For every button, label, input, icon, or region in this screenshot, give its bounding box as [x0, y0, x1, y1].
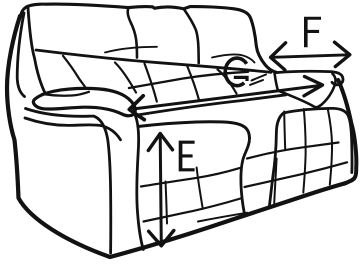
lumbar divider arc 2 [115, 63, 136, 93]
grid g2 right face [245, 162, 348, 187]
label E [179, 141, 195, 172]
grid g1 right face [247, 143, 339, 159]
arrow G left head [129, 96, 144, 120]
arm front top + right edge [26, 109, 111, 254]
right pocket fold 1 [252, 75, 267, 81]
seat band top edge [138, 122, 250, 138]
bottom hem line left face [198, 213, 248, 222]
arrow E shaft [160, 135, 161, 246]
seat right corner edge [241, 138, 250, 214]
grid h1 left face [141, 168, 241, 187]
grid w3 right face [284, 112, 285, 150]
lumbar bottom line [129, 72, 248, 88]
right arm front panel left+top+right [269, 108, 352, 207]
right arm pad left end [275, 73, 279, 91]
back cushion 1 left seam [28, 8, 46, 94]
lumbar divider arc 3b [187, 66, 199, 102]
arrow F left head [271, 43, 286, 70]
right pocket fold 2 [250, 80, 263, 85]
lumbar divider arc 2b [145, 64, 157, 102]
grid w2 right face [328, 109, 332, 185]
lumbar divider arc 1 [63, 56, 86, 88]
arrow G shaft [134, 86, 318, 109]
arrow E top head [148, 134, 172, 151]
seat front left edge [136, 116, 144, 250]
back cushion divider 2 [184, 9, 199, 63]
grid v1 left face [166, 182, 168, 224]
arrow F shaft [272, 55, 349, 58]
pad back under-line [42, 92, 89, 96]
back left wing inner line [17, 13, 24, 97]
arrow F right head [335, 42, 350, 66]
lumbar divider arc 4 [218, 70, 237, 94]
back cushion 2 sag bottom [105, 47, 157, 53]
grid v2 left face [197, 168, 203, 209]
label F [304, 17, 321, 48]
grid h2 left face [144, 199, 241, 222]
label G [225, 58, 247, 86]
back cushion 3 sag bottom [212, 54, 255, 62]
arm body under-curve [25, 118, 121, 140]
arrow E bottom head [149, 231, 174, 246]
left arm pad (lens with knob end) [33, 88, 135, 115]
back/lumbar seam [36, 50, 271, 72]
grid wA right face lower [274, 159, 276, 204]
grid w1 right face [303, 109, 305, 193]
right arm pad bottom [278, 91, 315, 108]
bottom hem right face + right silhouette [338, 80, 356, 184]
right arm pad inner curl [315, 74, 335, 108]
arrow G right head [304, 77, 323, 96]
seat top line [139, 95, 286, 115]
back cushion divider 1 [128, 8, 137, 58]
right arm pad top [276, 71, 343, 84]
sofa back outline (top edge, right edge) [21, 4, 277, 72]
